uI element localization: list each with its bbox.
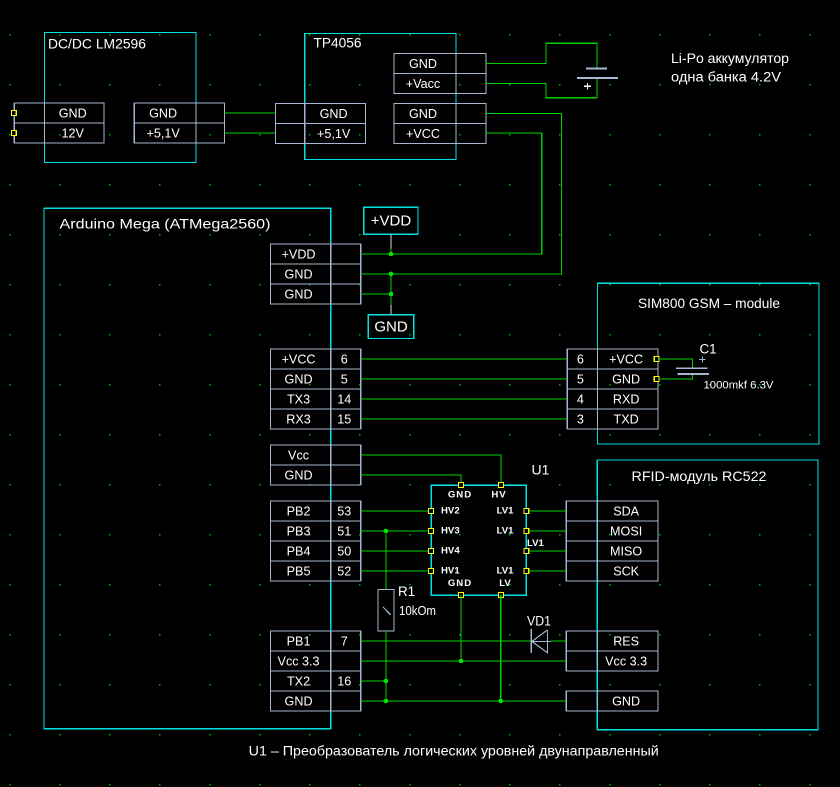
svg-text:GND: GND <box>409 107 437 121</box>
svg-text:HV3: HV3 <box>441 526 460 537</box>
DC/DC pin block GND/+5,1V (right) <box>134 103 224 143</box>
svg-text:RX3: RX3 <box>286 413 311 427</box>
wire PB2 to U1 HV2 <box>361 510 429 512</box>
wire PB3 to U1 HV3 <box>361 530 429 532</box>
op-amp U1 body <box>431 485 526 595</box>
svg-text:PB1: PB1 <box>287 635 311 649</box>
wire TX2 stub <box>361 680 386 682</box>
junction TX2/R1 <box>384 679 389 684</box>
junction Vcc3.3/U1 <box>459 659 464 664</box>
svg-text:одна банка 4.2V: одна банка 4.2V <box>671 69 781 84</box>
svg-text:GND: GND <box>612 695 640 709</box>
svg-text:TP4056: TP4056 <box>314 36 362 51</box>
TP4056 pin block GND/+5,1V (input) <box>276 104 366 144</box>
svg-text:LV1: LV1 <box>497 506 515 517</box>
svg-text:50: 50 <box>337 545 351 559</box>
svg-text:GND: GND <box>285 695 313 709</box>
wire GND Arduino to SIM800 <box>361 378 568 380</box>
svg-text:PB3: PB3 <box>287 525 311 539</box>
svg-text:5: 5 <box>577 373 584 387</box>
svg-text:TXD: TXD <box>614 413 639 427</box>
capacitor C1 value 1000mkf 6.3V <box>704 380 775 392</box>
svg-text:+VCC: +VCC <box>406 127 440 141</box>
diode VD1 designator <box>527 614 551 629</box>
SIM800 terminal GND <box>654 377 659 382</box>
U1 pin label HV3 <box>441 526 460 537</box>
wire +VCC Arduino to SIM800 <box>361 358 568 360</box>
wire +5,1V DC/DC to TP4056 <box>225 132 276 134</box>
capacitor C1 plates <box>676 368 709 374</box>
wire PB4 to U1 HV4 <box>361 550 429 552</box>
svg-text:GND: GND <box>320 107 348 121</box>
wire VD1 to RFID RES <box>551 640 567 642</box>
U1 pin squares bottom <box>459 593 504 598</box>
wire LV1-MISO U1 to RFID <box>529 550 567 552</box>
svg-text:GND: GND <box>59 107 87 121</box>
TP4056 pin block GND/+VCC (output) <box>394 104 486 144</box>
wire GND to C1 <box>659 375 693 379</box>
svg-text:Arduino Mega (ATMega2560): Arduino Mega (ATMega2560) <box>60 217 271 232</box>
svg-text:+VDD: +VDD <box>282 248 316 262</box>
diode VD1 <box>531 629 550 653</box>
svg-text:6: 6 <box>341 353 348 367</box>
junction U1 LV/GND <box>498 699 503 704</box>
wire U1 LV bottom lead <box>500 595 502 701</box>
wire GND Arduino to RFID <box>361 700 567 702</box>
svg-text:+VDD: +VDD <box>371 213 412 230</box>
U1 pin label HV1 <box>441 566 460 577</box>
svg-text:3: 3 <box>577 413 584 427</box>
wire LV1-SDA U1 to RFID <box>529 510 567 512</box>
svg-text:GND: GND <box>285 288 313 302</box>
svg-text:HV: HV <box>491 490 506 501</box>
svg-text:PB5: PB5 <box>287 565 311 579</box>
svg-text:5: 5 <box>341 373 348 387</box>
svg-text:+5,1V: +5,1V <box>317 127 351 141</box>
Arduino pin block +VCC6/GND5/TX314/RX315 <box>270 349 360 429</box>
svg-text:53: 53 <box>337 505 351 519</box>
U1 pin label LV1 row1 <box>497 506 515 517</box>
module box Arduino Mega (ATMega2560) <box>44 208 331 728</box>
svg-text:VD1: VD1 <box>527 614 551 629</box>
input terminal 12V <box>12 131 17 136</box>
U1 pin label GND bottom <box>448 578 472 589</box>
wire PB1 to VD1 <box>361 640 531 642</box>
svg-text:12V: 12V <box>62 127 85 141</box>
svg-text:DC/DC LM2596: DC/DC LM2596 <box>48 37 146 52</box>
svg-text:SDA: SDA <box>613 505 639 519</box>
U1 pin label LV1 row2 <box>497 526 515 537</box>
Arduino pin block PB1/Vcc3.3/TX2/GND <box>270 631 360 711</box>
resistor R1 value 10kOm <box>399 604 436 618</box>
junction GND row3 <box>389 292 394 297</box>
junction GND row2 <box>389 272 394 277</box>
Arduino pin block Vcc/GND <box>270 445 360 485</box>
wire +VCC to C1 <box>659 359 693 367</box>
U1 pin squares right <box>524 509 529 574</box>
junction +VDD <box>389 252 394 257</box>
svg-text:GND: GND <box>285 268 313 282</box>
svg-text:TX2: TX2 <box>287 675 310 689</box>
net label +VDD <box>364 207 418 234</box>
svg-text:LV1: LV1 <box>497 526 515 537</box>
svg-text:+Vacc: +Vacc <box>406 77 440 91</box>
svg-text:GND: GND <box>612 373 640 387</box>
resistor R1 designator <box>398 584 415 599</box>
svg-text:10kOm: 10kOm <box>399 604 436 618</box>
battery cell plates <box>577 68 618 78</box>
svg-text:RFID-модуль RC522: RFID-модуль RC522 <box>632 469 767 484</box>
svg-text:Vcc 3.3: Vcc 3.3 <box>605 655 647 669</box>
svg-text:16: 16 <box>337 675 351 689</box>
resistor R1 <box>378 590 394 632</box>
DC/DC pin block GND/12V (left) <box>14 103 104 143</box>
svg-text:HV1: HV1 <box>441 566 460 577</box>
U1 pin label HV4 <box>441 546 460 557</box>
svg-text:SIM800 GSM – module: SIM800 GSM – module <box>638 296 780 311</box>
svg-text:RXD: RXD <box>613 393 640 407</box>
wire GND to U1 GND <box>361 475 461 483</box>
wire RX3-TXD Arduino to SIM800 <box>361 418 568 420</box>
Arduino pin block PB2/PB3/PB4/PB5 <box>270 501 360 581</box>
U1 pin squares left <box>429 509 434 574</box>
wire TX3-RXD Arduino to SIM800 <box>361 398 568 400</box>
svg-text:52: 52 <box>337 565 351 579</box>
SIM800 terminal +VCC <box>654 357 659 362</box>
svg-text:LV1: LV1 <box>527 538 545 549</box>
U1 pin label LV bottom <box>499 578 511 589</box>
RFID pin block RES/Vcc3.3 <box>566 631 658 671</box>
svg-text:MOSI: MOSI <box>610 525 642 539</box>
svg-text:+5,1V: +5,1V <box>147 127 181 141</box>
capacitor C1 plus sign <box>699 356 705 362</box>
svg-text:U1 – Преобразователь логически: U1 – Преобразователь логических уровней … <box>249 744 659 759</box>
svg-text:HV4: HV4 <box>441 546 460 557</box>
wire LV1-SCK U1 to RFID <box>529 570 567 572</box>
module box RFID RC522 <box>597 460 818 730</box>
wire TP4056 +Vacc to battery positive <box>486 79 597 98</box>
svg-text:6: 6 <box>577 353 584 367</box>
svg-text:GND: GND <box>374 319 408 336</box>
wire LV1-MOSI U1 to RFID <box>529 530 567 532</box>
svg-text:GND: GND <box>448 578 472 589</box>
GND label lead <box>390 274 392 315</box>
svg-text:U1: U1 <box>532 462 550 478</box>
battery annotation Li-Po <box>671 51 789 85</box>
svg-text:4: 4 <box>577 393 584 407</box>
RFID pin block SDA/MOSI/MISO/SCK <box>566 501 658 581</box>
module box SIM800 GSM module <box>598 283 820 444</box>
svg-text:GND: GND <box>285 469 313 483</box>
wire R1 bottom lead <box>385 631 387 701</box>
svg-text:+VCC: +VCC <box>282 353 316 367</box>
wire TP4056 GND to battery negative <box>486 43 597 67</box>
svg-text:R1: R1 <box>398 584 415 599</box>
U1 pin label LV1 row4 <box>497 566 515 577</box>
wire +VCC TP4056 to Arduino +VDD <box>361 133 542 254</box>
svg-text:PB2: PB2 <box>287 505 311 519</box>
junction R1/GND <box>384 699 389 704</box>
svg-text:15: 15 <box>337 413 351 427</box>
svg-text:Li-Po аккумулятор: Li-Po аккумулятор <box>671 51 789 66</box>
svg-text:1000mkf 6.3V: 1000mkf 6.3V <box>704 380 775 392</box>
svg-text:Vcc 3.3: Vcc 3.3 <box>278 655 320 669</box>
svg-text:LV: LV <box>499 578 511 589</box>
U1 pin label LV1 row3 (outside) <box>527 538 545 549</box>
svg-text:TX3: TX3 <box>287 393 310 407</box>
net label GND <box>368 315 413 339</box>
svg-text:SCK: SCK <box>613 565 639 579</box>
wire PB5 to U1 HV1 <box>361 570 429 572</box>
svg-text:GND: GND <box>149 107 177 121</box>
svg-text:MISO: MISO <box>610 545 642 559</box>
svg-text:C1: C1 <box>700 342 717 357</box>
wire Arduino GND row3 stub <box>361 293 391 295</box>
wire U1 GND bottom lead <box>460 595 462 661</box>
U1 designator <box>532 462 550 478</box>
wire GND TP4056 to Arduino GND <box>361 114 562 275</box>
wire GND DC/DC to TP4056 <box>225 112 276 114</box>
battery plus sign <box>584 83 591 90</box>
wire Vcc3.3 Arduino to RFID <box>361 660 567 662</box>
svg-text:PB4: PB4 <box>287 545 311 559</box>
capacitor C1 designator <box>700 342 717 357</box>
svg-text:GND: GND <box>409 57 437 71</box>
svg-text:7: 7 <box>341 635 348 649</box>
U1 pin label HV top <box>491 490 506 501</box>
Arduino pin block +VDD/GND/GND <box>270 244 360 304</box>
U1 pin label HV2 <box>441 506 460 517</box>
U1 pin label GND top <box>448 490 472 501</box>
svg-text:RES: RES <box>613 635 639 649</box>
module box DC/DC LM2596 <box>45 33 197 163</box>
RFID pin block GND <box>566 691 658 711</box>
svg-text:+VCC: +VCC <box>609 353 643 367</box>
svg-text:HV2: HV2 <box>441 506 460 517</box>
TP4056 pin block GND/+Vacc (battery) <box>394 54 486 94</box>
svg-text:GND: GND <box>448 490 472 501</box>
caption U1 description <box>249 744 659 759</box>
SIM800 pin block 6/5/4/3 <box>567 349 658 429</box>
wire R1 top lead <box>385 531 387 590</box>
svg-text:14: 14 <box>337 393 351 407</box>
junction PB3/R1 <box>384 529 389 534</box>
svg-text:51: 51 <box>337 525 351 539</box>
wire Vcc to U1 HV <box>361 455 501 483</box>
U1 pin squares top <box>459 483 504 488</box>
svg-text:Vcc: Vcc <box>288 449 309 463</box>
+VDD label lead <box>390 234 392 254</box>
module box TP4056 <box>305 34 456 160</box>
svg-text:LV1: LV1 <box>497 566 515 577</box>
svg-text:GND: GND <box>285 373 313 387</box>
input terminal GND <box>12 111 17 116</box>
